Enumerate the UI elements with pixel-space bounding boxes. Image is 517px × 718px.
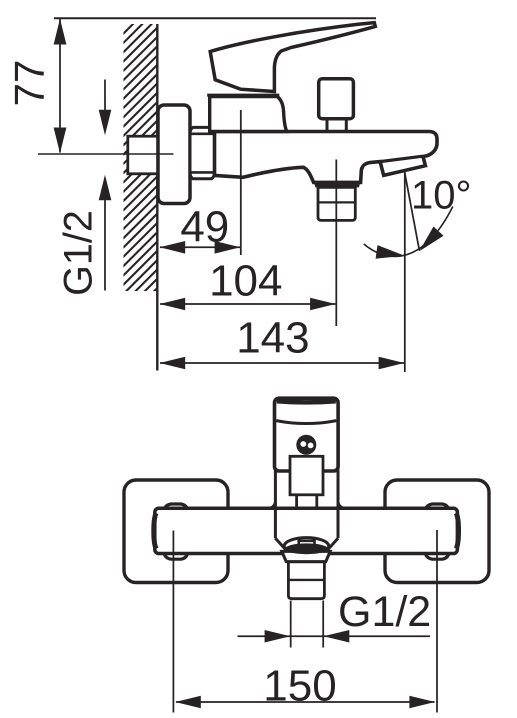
svg-text:G1/2: G1/2 [338,588,431,636]
svg-text:143: 143 [236,314,309,363]
svg-text:10°: 10° [411,173,472,217]
svg-text:77: 77 [6,60,53,107]
svg-text:G1/2: G1/2 [57,210,101,296]
svg-text:49: 49 [180,202,229,251]
svg-text:150: 150 [263,661,336,710]
svg-text:104: 104 [209,257,282,306]
